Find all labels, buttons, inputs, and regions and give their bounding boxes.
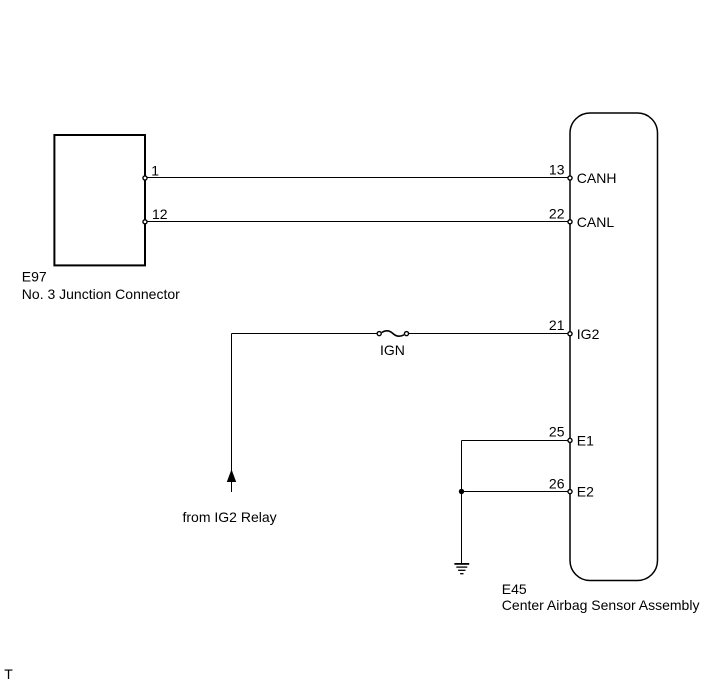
arrow from IG2 Relay bbox=[227, 469, 236, 482]
connector E45 body bbox=[570, 113, 658, 581]
pin 21 circle (E45) bbox=[568, 332, 572, 336]
pin 1 circle (E97) bbox=[143, 176, 147, 180]
pin 13 circle (E45) bbox=[568, 176, 572, 180]
pin 25 circle (E45) bbox=[568, 438, 572, 442]
svg-text:Center Airbag Sensor Assembly: Center Airbag Sensor Assembly bbox=[502, 597, 700, 613]
wire E1/E2 vertical to ground bbox=[461, 441, 463, 564]
svg-text:CANH: CANH bbox=[577, 170, 617, 186]
svg-text:21: 21 bbox=[549, 317, 565, 333]
svg-text:E45: E45 bbox=[502, 581, 527, 597]
pin 26 circle (E45) bbox=[568, 490, 572, 494]
wire CANL (E97 pin 12 to E45 pin 22) bbox=[145, 221, 570, 223]
svg-text:22: 22 bbox=[549, 206, 565, 222]
wire E2 horizontal bbox=[462, 491, 571, 493]
ground bbox=[454, 564, 469, 574]
pin 22 circle (E45) bbox=[568, 220, 572, 224]
svg-text:CANL: CANL bbox=[577, 214, 615, 230]
svg-text:1: 1 bbox=[151, 163, 159, 179]
svg-text:25: 25 bbox=[549, 424, 565, 440]
svg-text:T: T bbox=[4, 666, 13, 681]
svg-text:E2: E2 bbox=[577, 484, 594, 500]
svg-text:from IG2 Relay: from IG2 Relay bbox=[183, 509, 277, 525]
pin 12 circle (E97) bbox=[143, 220, 147, 224]
svg-text:No. 3 Junction Connector: No. 3 Junction Connector bbox=[22, 286, 180, 302]
svg-text:13: 13 bbox=[549, 162, 565, 178]
connector E97 box bbox=[54, 135, 145, 265]
svg-text:IG2: IG2 bbox=[577, 326, 600, 342]
svg-text:E1: E1 bbox=[577, 433, 594, 449]
junction dot E1/E2 bbox=[459, 489, 464, 494]
wire IG2 vertical drop bbox=[231, 334, 233, 493]
svg-text:12: 12 bbox=[152, 206, 168, 222]
wire IG2 horizontal (fuse right segment) bbox=[409, 333, 570, 335]
fuse IGN bbox=[377, 331, 408, 336]
wire E1 horizontal bbox=[462, 440, 571, 442]
wire CANH (E97 pin 1 to E45 pin 13) bbox=[145, 177, 570, 179]
wire IG2 horizontal (fuse left segment) bbox=[232, 333, 377, 335]
svg-text:E97: E97 bbox=[22, 269, 47, 285]
svg-text:26: 26 bbox=[549, 476, 565, 492]
svg-text:IGN: IGN bbox=[380, 342, 405, 358]
